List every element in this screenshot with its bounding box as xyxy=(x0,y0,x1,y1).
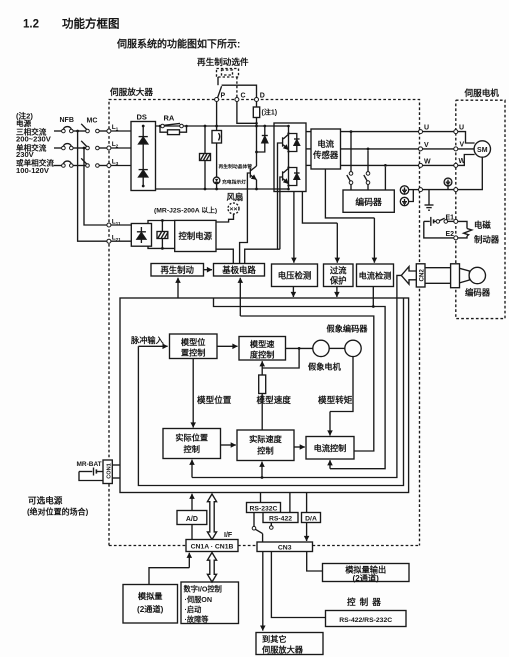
svg-text:CN3: CN3 xyxy=(278,544,292,551)
svg-text:SM: SM xyxy=(477,147,488,154)
svg-text:控制: 控制 xyxy=(257,445,273,455)
wire CN3 to analog output xyxy=(307,552,323,572)
encoder neck xyxy=(460,268,470,283)
junction dot speed wire xyxy=(298,347,301,350)
wire 模型速度控制 to virtual motor xyxy=(286,347,313,349)
wire jumper P to D xyxy=(218,85,257,98)
interface digital hollow double arrow xyxy=(207,553,216,583)
svg-text:RS-232C: RS-232C xyxy=(250,505,278,512)
svg-text:过流: 过流 xyxy=(330,266,347,276)
ground circled PE upper xyxy=(400,186,419,194)
wire current detection feedback to current control xyxy=(214,287,386,469)
converter A/D box xyxy=(177,511,207,525)
svg-text:实际位置: 实际位置 xyxy=(175,432,208,442)
encoder cable to motor encoder xyxy=(425,268,451,284)
label 编码器 motor encoder xyxy=(465,288,491,298)
wire CON1 to control board xyxy=(112,465,120,478)
serial interface box RS-422 xyxy=(263,513,298,523)
digital IO box 数字I/O控制 xyxy=(181,582,239,624)
svg-text:编码器: 编码器 xyxy=(465,288,491,298)
wire bottom DC bus xyxy=(156,188,275,190)
svg-text:数字I/O控制: 数字I/O控制 xyxy=(184,585,222,594)
control power box 控制电源 xyxy=(175,220,216,251)
svg-text:NFB: NFB xyxy=(60,117,74,124)
wire inverter to 电压检测 xyxy=(293,192,295,263)
wire tap row1 to L21 xyxy=(78,131,108,241)
svg-text:CN1A · CN1B: CN1A · CN1B xyxy=(191,544,234,551)
wire arrow 再生制动 to 基极电路 xyxy=(204,269,213,271)
label 风扇 xyxy=(227,192,244,202)
svg-text:RS-422/RS-232C: RS-422/RS-232C xyxy=(339,617,392,624)
terminal L3 xyxy=(107,159,119,168)
interface I/F hollow double arrow xyxy=(207,494,216,540)
label 电磁制动器 xyxy=(474,220,500,245)
label 伺服电机 xyxy=(464,87,500,98)
svg-text:电压检测: 电压检测 xyxy=(278,271,312,281)
wire CN3 to other servo amplifiers xyxy=(262,552,264,631)
wire current sensor to 电流检测 xyxy=(325,169,374,263)
wire arrow 实际速度控制 to 电流控制 xyxy=(294,446,305,448)
svg-text:A/D: A/D xyxy=(186,516,198,523)
voltage detection box 电压检测 xyxy=(272,264,318,287)
label (绝对位置的场合) xyxy=(27,507,89,517)
svg-text:风扇: 风扇 xyxy=(227,192,244,202)
terminal U amplifier xyxy=(419,125,430,134)
svg-text:控制: 控制 xyxy=(184,444,200,454)
svg-text:再生制动晶体管: 再生制动晶体管 xyxy=(219,163,253,170)
junction dots U V W taps xyxy=(350,130,387,167)
wire V amp to motor xyxy=(422,148,454,150)
svg-text:·伺服ON: ·伺服ON xyxy=(185,595,213,604)
svg-text:伺服系统的功能图如下所示:: 伺服系统的功能图如下所示: xyxy=(116,38,240,51)
svg-text:度控制: 度控制 xyxy=(250,350,275,360)
coil electromagnetic brake xyxy=(458,221,472,238)
junction dot row1 tap xyxy=(76,130,79,133)
svg-text:传感器: 传感器 xyxy=(312,150,339,160)
fan symbol xyxy=(216,203,239,222)
svg-text:11: 11 xyxy=(116,221,121,227)
svg-text:P: P xyxy=(221,93,226,100)
wire speed feedback with resistor xyxy=(262,348,299,375)
label 模型转矩 xyxy=(318,394,353,405)
junction dot feedback xyxy=(261,305,375,479)
contactor MC xyxy=(73,118,107,168)
resistor model speed xyxy=(259,375,266,430)
connector CN1A CN1B box xyxy=(186,540,238,552)
diode IGBT upper freewheel xyxy=(289,134,300,152)
svg-text:再生制动选件: 再生制动选件 xyxy=(197,56,249,67)
note (注2) power source text block xyxy=(16,111,54,176)
wire P riser to bus xyxy=(216,101,218,126)
terminal L11 xyxy=(107,219,121,228)
encoder round body xyxy=(469,267,485,283)
terminal W amplifier xyxy=(419,158,432,167)
wire current control output to base circuit xyxy=(240,278,373,451)
transistor IGBT lower xyxy=(283,168,289,184)
svg-text:模拟量: 模拟量 xyxy=(138,591,163,601)
svg-text:D/A: D/A xyxy=(305,515,317,522)
svg-text:21: 21 xyxy=(116,237,122,243)
wire control board to D/A xyxy=(306,493,308,513)
svg-text:假象编码器: 假象编码器 xyxy=(327,324,369,334)
terminal L2 xyxy=(107,141,119,150)
wire C down and over xyxy=(237,101,257,123)
wire encoder CN2 position feedback xyxy=(192,275,401,477)
svg-text:控制电源: 控制电源 xyxy=(179,231,213,241)
wire control power to base circuit xyxy=(216,249,233,263)
svg-text:(注1): (注1) xyxy=(262,108,278,117)
svg-text:(2通道): (2通道) xyxy=(137,604,164,614)
connector CN3 box xyxy=(257,542,313,552)
svg-text:电流检测: 电流检测 xyxy=(359,271,392,281)
svg-text:模型转矩: 模型转矩 xyxy=(318,394,353,405)
label 再生制动晶体管 xyxy=(219,163,253,170)
capacitor control power (hatched) xyxy=(148,219,175,250)
svg-text:电流控制: 电流控制 xyxy=(314,443,347,453)
svg-text:置控制: 置控制 xyxy=(181,348,206,358)
svg-text:控制器: 控制器 xyxy=(347,596,385,607)
svg-text:模型速度: 模型速度 xyxy=(257,394,292,405)
overcurrent protection box 过流保护 xyxy=(324,264,354,287)
other servo amplifier box 到其它伺服放大器 xyxy=(256,633,323,655)
caption 伺服系统的功能图如下所示: xyxy=(116,38,240,51)
virtual encoder circle 假象编码器 xyxy=(345,340,361,356)
label 伺服放大器 xyxy=(109,86,153,97)
ground PE terminal motor frame xyxy=(454,188,458,192)
wire inverter to 过流保护 xyxy=(302,192,337,263)
svg-text:V: V xyxy=(424,142,429,149)
svg-text:××: ×× xyxy=(230,206,238,213)
label 模型速度 xyxy=(257,394,292,405)
terminal U motor xyxy=(454,125,464,134)
LED charge lamp xyxy=(213,177,220,189)
wire phase W row xyxy=(341,164,419,166)
svg-text:电流: 电流 xyxy=(317,139,334,149)
analog output box 模拟量输出 xyxy=(323,564,410,583)
motor SM xyxy=(458,132,491,190)
regen brake control box 再生制动 xyxy=(151,264,204,277)
wire phase V row xyxy=(341,148,419,150)
wire regen transistor base xyxy=(240,173,251,264)
regenerative brake option dashed resistor box xyxy=(217,69,239,98)
wire tap row2 to L11 xyxy=(84,148,107,225)
actual speed control box 实际速度控制 xyxy=(237,430,294,461)
contact serial selector xyxy=(252,513,273,543)
svg-text:CN2: CN2 xyxy=(418,269,425,282)
converter D/A box xyxy=(302,513,321,523)
current detection box 电流检测 xyxy=(357,264,394,287)
svg-text:C: C xyxy=(241,93,246,100)
label 假象电机 xyxy=(308,362,342,372)
serial interface box RS-232C xyxy=(247,503,281,513)
regen resistor with lamp branch xyxy=(212,126,222,177)
svg-text:电源: 电源 xyxy=(16,118,32,128)
svg-text:电磁: 电磁 xyxy=(474,220,491,230)
label 充电指示灯 xyxy=(222,178,246,185)
wire arrow 模型位置控制 to 模型速度控制 xyxy=(217,345,238,347)
rectifier DS xyxy=(131,113,156,191)
svg-text:D: D xyxy=(260,93,265,100)
wire A/D path xyxy=(191,494,193,540)
label MR-BAT xyxy=(77,461,102,468)
svg-text:RA: RA xyxy=(164,114,175,123)
terminal E1 xyxy=(446,215,458,224)
wire control board to RS-422 xyxy=(289,493,291,513)
breaker NFB xyxy=(54,117,74,167)
svg-text:(2通道): (2通道) xyxy=(353,573,380,583)
svg-text:(MR-J2S-200A 以上): (MR-J2S-200A 以上) xyxy=(154,206,217,215)
wire 过流保护 down arrow to control board xyxy=(336,287,338,298)
terminal D xyxy=(255,93,265,102)
relay RA inrush contact and resistor xyxy=(159,114,188,135)
wire W tap to encoder box xyxy=(384,167,386,190)
svg-text:到其它: 到其它 xyxy=(262,634,287,644)
svg-text:U: U xyxy=(459,125,464,132)
wire 电压检测 down arrow to control board xyxy=(292,287,294,298)
inverter power module box xyxy=(274,123,306,192)
current control box 电流控制 xyxy=(306,437,354,460)
wire pulse train loop xyxy=(138,298,403,486)
wire control board to RS-232C xyxy=(260,493,262,503)
wire analog input to CN1A xyxy=(149,553,189,585)
analog input box 模拟量 xyxy=(123,585,178,624)
connector CN2 xyxy=(416,264,425,287)
svg-text:·故障等: ·故障等 xyxy=(185,615,210,624)
label 控制器 xyxy=(347,596,385,607)
contact DB switch U xyxy=(347,133,353,190)
svg-text:再生制动: 再生制动 xyxy=(160,265,194,275)
encoder flange xyxy=(451,264,460,288)
contact DB switch V xyxy=(364,150,370,190)
encoder interface box 编码器 xyxy=(343,190,394,212)
svg-text:制动器: 制动器 xyxy=(474,235,500,245)
terminal V amplifier xyxy=(419,142,430,151)
svg-text:模型位: 模型位 xyxy=(181,337,206,347)
label (MR-J2S-200A 以上) xyxy=(154,206,217,215)
svg-text:V: V xyxy=(460,141,465,148)
svg-text:·启动: ·启动 xyxy=(185,605,202,614)
transistor IGBT upper xyxy=(283,134,289,150)
wire top DC bus xyxy=(156,125,275,127)
rectifier control power input box xyxy=(111,224,152,247)
capacitor main smoothing (hatched) xyxy=(200,126,211,189)
wire CN3 to controller xyxy=(271,552,325,618)
svg-text:E2: E2 xyxy=(446,231,455,238)
servo motor dashed enclosure xyxy=(456,100,505,318)
svg-text:伺服放大器: 伺服放大器 xyxy=(261,644,304,654)
svg-text:可选电源: 可选电源 xyxy=(28,495,63,506)
terminal L1 xyxy=(107,124,119,133)
svg-text:100-120V: 100-120V xyxy=(16,166,50,175)
terminal L21 xyxy=(107,235,121,244)
svg-text:功能方框图: 功能方框图 xyxy=(62,17,120,31)
svg-text:U: U xyxy=(424,125,429,132)
wire arrow 实际位置控制 to 实际速度控制 xyxy=(221,444,236,446)
junction dots on top bus xyxy=(204,122,267,127)
label 模型位置 xyxy=(197,394,232,405)
svg-text:模型位置: 模型位置 xyxy=(197,394,232,405)
model position control box 模型位置控制 xyxy=(170,334,218,359)
svg-text:1.2: 1.2 xyxy=(23,19,39,31)
svg-text:保护: 保护 xyxy=(329,276,347,286)
resistor (注1) xyxy=(253,101,277,126)
junction dot row2 tap xyxy=(83,147,86,150)
junction dots on bottom bus xyxy=(204,188,258,191)
svg-text:伺服电机: 伺服电机 xyxy=(464,87,500,98)
battery MR-BAT cell xyxy=(79,468,103,481)
svg-text:模拟量输出: 模拟量输出 xyxy=(345,564,386,574)
terminal E2 xyxy=(446,231,458,240)
wire W amp to motor xyxy=(422,164,454,166)
ground circled PE lower xyxy=(400,190,413,206)
svg-text:DS: DS xyxy=(137,113,147,122)
svg-text:脉冲输入: 脉冲输入 xyxy=(130,335,165,345)
label 再生制动选件 xyxy=(197,56,249,67)
svg-text:伺服放大器: 伺服放大器 xyxy=(109,86,153,97)
svg-text:I/F: I/F xyxy=(224,532,233,539)
label 脉冲输入 xyxy=(130,335,165,345)
actual position control box 实际位置控制 xyxy=(163,429,221,459)
base circuit box 基极电路 xyxy=(214,264,265,277)
svg-text:MC: MC xyxy=(87,118,98,125)
svg-text:W: W xyxy=(424,158,431,165)
wire arrow up into 再生制动 from big box xyxy=(177,278,179,298)
main control board box xyxy=(120,298,409,493)
terminal V motor xyxy=(454,141,465,151)
terminal P xyxy=(215,93,226,102)
wire virtual motor to virtual encoder xyxy=(329,347,345,349)
wire D/A arrow to CN3 xyxy=(306,523,308,542)
wire U amp to motor xyxy=(422,131,454,133)
connector CON1 xyxy=(103,460,113,484)
svg-text:RS-422: RS-422 xyxy=(269,515,292,522)
svg-text:编码器: 编码器 xyxy=(355,196,382,207)
svg-text:MR-BAT: MR-BAT xyxy=(77,461,102,468)
controller box RS-422/RS-232C xyxy=(326,611,407,627)
svg-text:CON1: CON1 xyxy=(107,463,113,479)
servo amplifier dashed enclosure xyxy=(109,100,420,546)
battery brake supply with contact xyxy=(424,217,454,238)
svg-text:充电指示灯: 充电指示灯 xyxy=(222,178,246,185)
label 假象编码器 xyxy=(327,324,369,334)
terminal W motor xyxy=(454,158,466,168)
ground circled PE motor xyxy=(444,178,452,190)
model speed control box 模型速度控制 xyxy=(239,337,286,361)
label I/F xyxy=(224,532,233,539)
wire L terminals to DS xyxy=(111,131,131,166)
wire model position signal down xyxy=(192,359,194,428)
wire PE amp to motor xyxy=(422,189,454,191)
virtual motor circle 假象电机 xyxy=(313,340,329,356)
connector arrow hollow to CN2 xyxy=(401,267,416,285)
ground earth symbol xyxy=(425,190,434,211)
svg-text:200~230V: 200~230V xyxy=(16,135,52,144)
svg-text:实际速度: 实际速度 xyxy=(249,434,283,444)
label 可选电源 xyxy=(28,495,63,506)
diode IGBT lower freewheel xyxy=(289,168,300,186)
transistor regen brake xyxy=(250,126,258,189)
terminal C xyxy=(235,93,246,102)
diode regen freewheel xyxy=(257,126,268,152)
wire model torque signal down xyxy=(330,357,353,436)
title heading 1.2 功能方框图 xyxy=(23,17,120,31)
wire IGBT base leads to base circuit xyxy=(245,143,283,264)
svg-text:(绝对位置的场合): (绝对位置的场合) xyxy=(27,507,89,517)
svg-text:假象电机: 假象电机 xyxy=(308,362,342,372)
wire phase U row xyxy=(341,131,419,133)
svg-text:模型速: 模型速 xyxy=(250,339,275,349)
current sensor box 电流传感器 xyxy=(306,129,341,169)
ground PE terminal amplifier xyxy=(419,188,423,192)
wire option box lead to P blade xyxy=(217,77,219,85)
svg-text:基极电路: 基极电路 xyxy=(221,265,256,275)
